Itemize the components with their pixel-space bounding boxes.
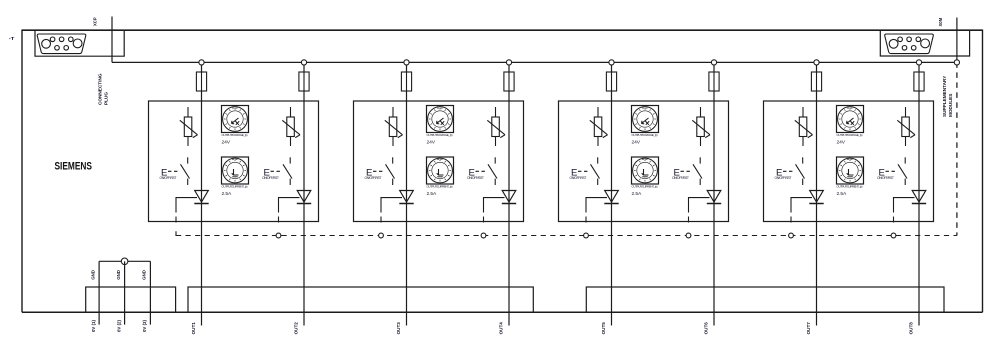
potentiometer RV2 dial bbox=[427, 106, 454, 133]
wire supply bus 24V horizontal bbox=[112, 61, 957, 63]
module M4 box bbox=[764, 101, 934, 222]
svg-text:OUT8: OUT8 bbox=[909, 322, 914, 335]
svg-text:ON/OFF/RST: ON/OFF/RST bbox=[570, 176, 587, 180]
svg-text:OUTPUT/CURRENT_(x): OUTPUT/CURRENT_(x) bbox=[222, 184, 248, 188]
svg-text:ON/OFF/RST: ON/OFF/RST bbox=[262, 176, 279, 180]
wire control bus corner left bbox=[176, 231, 181, 235]
wire bottom bus 0V bbox=[22, 311, 983, 313]
varistor RU8 bbox=[897, 107, 915, 146]
wire gate elbow thyristor V6 bbox=[689, 198, 710, 223]
potentiometer RA4 dial bbox=[837, 157, 864, 184]
svg-text:24V: 24V bbox=[222, 140, 231, 146]
switch S2 ON/OFF/RST bbox=[271, 157, 293, 185]
wire OUT4 vertical bbox=[508, 65, 510, 326]
node junction gate 8 on control bus bbox=[891, 233, 896, 238]
thyristor V7 bbox=[809, 191, 823, 204]
wire GND1 vertical bbox=[98, 261, 100, 324]
svg-text:2.5A: 2.5A bbox=[427, 191, 437, 197]
wire OUT2 vertical bbox=[303, 65, 305, 326]
fuse F2 bbox=[299, 72, 309, 91]
svg-text:OUT2: OUT2 bbox=[294, 322, 299, 335]
fuse F5 bbox=[606, 72, 616, 91]
wire supplementary modules drop dashed bbox=[956, 62, 958, 235]
node junction OUT8 on supply bus bbox=[916, 60, 921, 65]
svg-text:0V (3): 0V (3) bbox=[142, 320, 147, 332]
varistor RU6 bbox=[692, 107, 710, 146]
svg-text:ON/OFF/RST: ON/OFF/RST bbox=[160, 176, 177, 180]
svg-text:XCP: XCP bbox=[92, 17, 97, 26]
node junction gate 4 on control bus bbox=[481, 233, 486, 238]
thyristor V3 bbox=[399, 191, 413, 204]
node GND junction circle bbox=[121, 258, 128, 265]
svg-text:OUTPUT/VOLTAGE_(x): OUTPUT/VOLTAGE_(x) bbox=[222, 133, 248, 137]
wire gate elbow thyristor V4 bbox=[484, 198, 505, 223]
svg-text:2.5A: 2.5A bbox=[837, 191, 847, 197]
varistor RU4 bbox=[487, 107, 505, 146]
fuse F1 bbox=[196, 72, 206, 91]
wire supplementary modules drop solid bbox=[956, 18, 958, 63]
switch S7 ON/OFF/RST bbox=[783, 157, 805, 185]
node junction gate 2 on control bus bbox=[276, 233, 281, 238]
svg-text:CONNECTING: CONNECTING bbox=[97, 73, 102, 105]
connector X1 housing left bbox=[35, 30, 124, 56]
node junction OUT3 on supply bus bbox=[404, 60, 409, 65]
connector X1 D-sub 9 plug bbox=[37, 34, 86, 54]
wire control bus dashed bbox=[186, 235, 957, 237]
wire OUT3 vertical bbox=[406, 65, 408, 326]
terminal block outputs box B bbox=[586, 287, 944, 312]
fuse F8 bbox=[914, 72, 924, 91]
wire OUT1 vertical bbox=[201, 65, 203, 326]
switch S3 ON/OFF/RST bbox=[373, 157, 395, 185]
potentiometer RA1 dial bbox=[222, 157, 249, 184]
wire gate elbow thyristor V1 bbox=[176, 198, 197, 223]
svg-text:OUTPUT/CURRENT_(x): OUTPUT/CURRENT_(x) bbox=[427, 184, 453, 188]
svg-text:GND: GND bbox=[90, 270, 95, 280]
wire OUT7 vertical bbox=[816, 65, 818, 326]
fuse F6 bbox=[709, 72, 719, 91]
svg-text:ON/OFF/RST: ON/OFF/RST bbox=[365, 176, 382, 180]
thyristor V8 bbox=[912, 191, 926, 204]
wire OUT8 vertical bbox=[918, 65, 920, 326]
svg-text:0V (1): 0V (1) bbox=[91, 320, 96, 332]
potentiometer RV4 dial bbox=[837, 106, 864, 133]
node junction gate 7 on control bus bbox=[789, 233, 794, 238]
node junction gate 5 on control bus bbox=[584, 233, 589, 238]
wire right frame bbox=[982, 30, 984, 313]
node junction gate 3 on control bus bbox=[379, 233, 384, 238]
fuse F7 bbox=[811, 72, 821, 91]
fuse F4 bbox=[504, 72, 514, 91]
svg-text:ON/OFF/RST: ON/OFF/RST bbox=[775, 176, 792, 180]
node junction OUT5 on supply bus bbox=[609, 60, 614, 65]
wire connector drop to supply bus bbox=[111, 17, 113, 63]
svg-text:OUT1: OUT1 bbox=[191, 322, 196, 335]
svg-text:OUTPUT/VOLTAGE_(x): OUTPUT/VOLTAGE_(x) bbox=[837, 133, 863, 137]
svg-text:SUPPLEMENTARY: SUPPLEMENTARY bbox=[942, 75, 947, 117]
potentiometer RA2 dial bbox=[427, 157, 454, 184]
thyristor V2 bbox=[297, 191, 311, 204]
terminal block outputs box A bbox=[188, 287, 533, 312]
varistor RU1 bbox=[180, 107, 198, 146]
svg-text:ON/OFF/RST: ON/OFF/RST bbox=[672, 176, 689, 180]
wire gate elbow thyristor V8 bbox=[894, 198, 915, 223]
switch S5 ON/OFF/RST bbox=[578, 157, 600, 185]
varistor RU7 bbox=[795, 107, 813, 146]
svg-text:24V: 24V bbox=[837, 140, 846, 146]
svg-text:OUTPUT/CURRENT_(x): OUTPUT/CURRENT_(x) bbox=[632, 184, 658, 188]
node junction supplementary bus bbox=[954, 60, 959, 65]
wire gate elbow thyristor V2 bbox=[279, 198, 300, 223]
node junction OUT4 on supply bus bbox=[506, 60, 511, 65]
wire gate elbow thyristor V7 bbox=[791, 198, 812, 223]
svg-text:-T: -T bbox=[9, 36, 15, 42]
svg-text:OUT7: OUT7 bbox=[806, 322, 811, 335]
wire GND tie bar bbox=[99, 260, 150, 262]
svg-text:OUT5: OUT5 bbox=[601, 322, 606, 335]
svg-text:OUT3: OUT3 bbox=[396, 322, 401, 335]
wire top bus bbox=[22, 29, 983, 31]
potentiometer RV1 dial bbox=[222, 106, 249, 133]
wire gate elbow thyristor V5 bbox=[586, 198, 607, 223]
svg-text:2.5A: 2.5A bbox=[222, 191, 232, 197]
node junction OUT7 on supply bus bbox=[814, 60, 819, 65]
svg-text:SIEMENS: SIEMENS bbox=[55, 160, 93, 172]
svg-text:GND: GND bbox=[116, 270, 121, 280]
svg-text:GND: GND bbox=[142, 270, 147, 280]
node junction OUT2 on supply bus bbox=[301, 60, 306, 65]
wire OUT5 vertical bbox=[611, 65, 613, 326]
module M2 box bbox=[354, 101, 524, 222]
svg-text:OUT6: OUT6 bbox=[704, 322, 709, 335]
terminal block GND box bbox=[86, 287, 176, 312]
svg-text:OUTPUT/VOLTAGE_(x): OUTPUT/VOLTAGE_(x) bbox=[632, 133, 658, 137]
svg-text:MODULES: MODULES bbox=[948, 94, 953, 117]
wire OUT6 vertical bbox=[713, 65, 715, 326]
varistor RU2 bbox=[282, 107, 300, 146]
svg-text:2.5A: 2.5A bbox=[632, 191, 642, 197]
potentiometer RV3 dial bbox=[632, 106, 659, 133]
potentiometer RA3 dial bbox=[632, 157, 659, 184]
switch S6 ON/OFF/RST bbox=[681, 157, 703, 185]
connector X2 D-sub 9 plug bbox=[885, 34, 934, 54]
wire gate elbow thyristor V3 bbox=[381, 198, 402, 223]
svg-text:PLUG: PLUG bbox=[104, 92, 109, 105]
switch S8 ON/OFF/RST bbox=[886, 157, 908, 185]
svg-text:ON/OFF/RST: ON/OFF/RST bbox=[467, 176, 484, 180]
node junction OUT6 on supply bus bbox=[711, 60, 716, 65]
thyristor V1 bbox=[194, 191, 208, 204]
node junction gate 6 on control bus bbox=[686, 233, 691, 238]
module M3 box bbox=[559, 101, 729, 222]
svg-text:24V: 24V bbox=[632, 140, 641, 146]
thyristor V6 bbox=[707, 191, 721, 204]
thyristor V5 bbox=[604, 191, 618, 204]
switch S4 ON/OFF/RST bbox=[476, 157, 498, 185]
svg-text:OUTPUT/CURRENT_(x): OUTPUT/CURRENT_(x) bbox=[837, 184, 863, 188]
wire GND2 vertical bbox=[124, 261, 126, 324]
thyristor V4 bbox=[502, 191, 516, 204]
svg-text:24V: 24V bbox=[427, 140, 436, 146]
svg-text:0V (2): 0V (2) bbox=[116, 320, 121, 332]
wire GND3 vertical bbox=[149, 261, 151, 324]
svg-text:OUT4: OUT4 bbox=[499, 322, 504, 335]
connector X2 housing right bbox=[880, 30, 969, 56]
wire left frame bbox=[21, 30, 23, 313]
fuse F3 bbox=[401, 72, 411, 91]
svg-text:ON/OFF/RST: ON/OFF/RST bbox=[877, 176, 894, 180]
varistor RU3 bbox=[385, 107, 403, 146]
switch S1 ON/OFF/RST bbox=[168, 157, 190, 185]
module M1 box bbox=[149, 101, 319, 222]
svg-text:OUTPUT/VOLTAGE_(x): OUTPUT/VOLTAGE_(x) bbox=[427, 133, 453, 137]
node junction OUT1 on supply bus bbox=[199, 60, 204, 65]
svg-text:X0M: X0M bbox=[938, 17, 943, 26]
varistor RU5 bbox=[590, 107, 608, 146]
